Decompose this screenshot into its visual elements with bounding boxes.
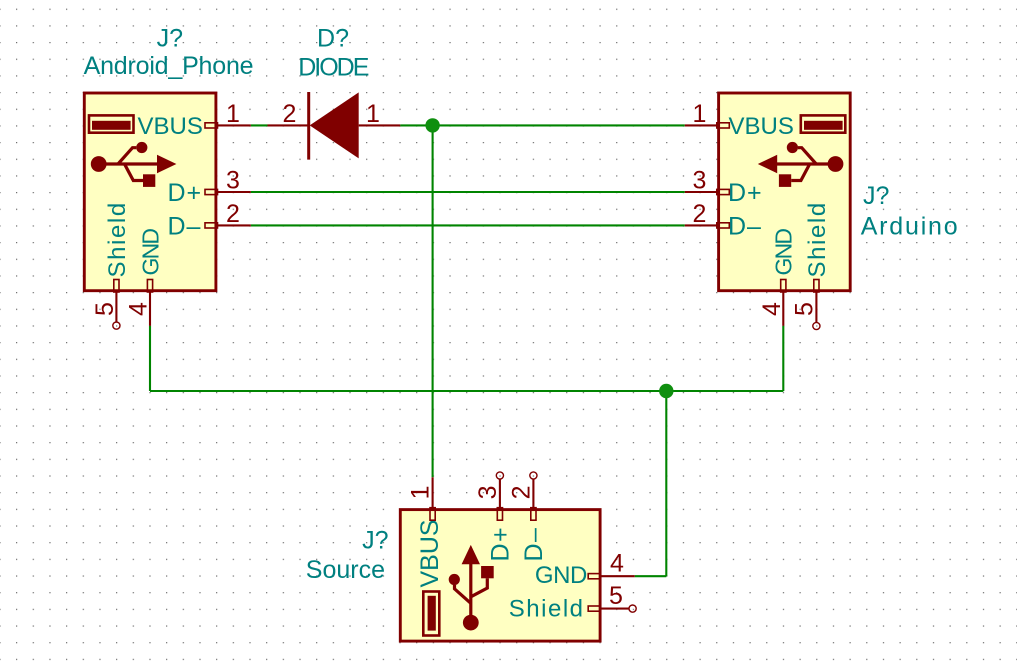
svg-text:4: 4: [758, 302, 786, 316]
wire D+: [251, 191, 685, 193]
connector J3 pin name GND: [535, 562, 587, 589]
wire GND bus horizontal: [150, 390, 783, 392]
svg-text:Shield: Shield: [509, 596, 585, 623]
svg-text:3: 3: [692, 167, 706, 195]
connector J3 pin name Shield: [509, 596, 585, 623]
svg-text:1: 1: [366, 100, 380, 128]
connector J1 plug icon: [89, 115, 134, 132]
svg-text:VBUS: VBUS: [729, 113, 794, 140]
connector J2 pin name D+: [728, 179, 763, 207]
svg-text:D–: D–: [520, 527, 548, 562]
wire D-: [251, 224, 685, 226]
connector J2 reference J?: [863, 182, 889, 210]
svg-text:1: 1: [692, 100, 706, 128]
svg-text:VBUS: VBUS: [416, 519, 444, 587]
connector J2 pin 2 number: [692, 200, 706, 228]
wire VBUS right (diode to connector J2): [400, 124, 685, 126]
connector J1 Android_Phone body: [84, 93, 216, 291]
connector J2 pin name D-: [728, 212, 762, 240]
svg-text:D?: D?: [317, 25, 349, 53]
connector J2 pin 4 number: [758, 302, 786, 316]
connector J2 Arduino body: [719, 93, 851, 291]
connector J3 pin name D+ (vertical): [486, 526, 514, 562]
connector J2 pin 1 number: [692, 100, 706, 128]
svg-text:2: 2: [283, 100, 297, 128]
connector J2 pin name VBUS: [729, 113, 794, 140]
connector J3 USB logo: [449, 545, 494, 631]
svg-text:DIODE: DIODE: [298, 54, 369, 82]
diode D1 pin 1 number: [366, 100, 380, 128]
connector J2 pin 3 number: [692, 167, 706, 195]
connector J1 USB logo: [91, 142, 177, 187]
connector J2 pin 1 VBUS: [685, 123, 730, 128]
svg-text:J?: J?: [157, 25, 183, 53]
connector J1 pin name VBUS: [138, 113, 203, 140]
connector J3 pin 3 number: [474, 485, 502, 499]
connector J1 pin 3 number: [226, 167, 240, 195]
svg-text:4: 4: [610, 550, 624, 578]
connector J2 plug icon: [801, 115, 846, 132]
svg-text:Shield: Shield: [104, 201, 131, 277]
connector J3 pin 2 D-: [530, 472, 537, 520]
svg-text:5: 5: [609, 582, 623, 610]
svg-text:1: 1: [226, 100, 240, 128]
connector J3 pin name VBUS (vertical): [416, 519, 444, 587]
svg-text:2: 2: [507, 485, 535, 499]
connector J2 USB logo: [758, 142, 844, 187]
wire GND junction down: [665, 391, 667, 576]
connector J1 pin name Shield (vertical): [104, 201, 131, 277]
diode D1 cathode bar: [307, 92, 310, 160]
connector J3 pin 1 number: [407, 485, 435, 499]
connector J1 reference J?: [157, 25, 183, 53]
connector J2 pin name Shield (vertical): [804, 201, 831, 277]
svg-text:5: 5: [91, 302, 119, 316]
svg-text:2: 2: [226, 200, 240, 228]
connector J2 pin 5 Shield: [813, 280, 820, 330]
svg-text:Source: Source: [306, 556, 385, 584]
connector J2 value Arduino: [861, 213, 960, 241]
svg-text:D–: D–: [168, 212, 202, 240]
connector J1 pin 1 number: [226, 100, 240, 128]
connector J3 pin name D- (vertical): [520, 527, 548, 562]
connector J3 pin 4 GND: [588, 574, 635, 579]
diode D1 triangle: [310, 92, 359, 158]
svg-text:Arduino: Arduino: [861, 213, 960, 241]
connector J1 pin 2 D-: [205, 223, 251, 228]
svg-text:Shield: Shield: [804, 201, 831, 277]
wire GND left vertical: [149, 326, 151, 391]
connector J3 reference J?: [362, 527, 388, 555]
connector J1 value Android_Phone: [84, 52, 254, 80]
diode D1 pin 2 number: [283, 100, 297, 128]
svg-text:5: 5: [791, 302, 819, 316]
connector J1 pin name D-: [168, 212, 202, 240]
connector J3 pin 5 number: [609, 582, 623, 610]
connector J2 pin 2 D-: [685, 223, 730, 228]
junction node GND: [659, 384, 673, 398]
connector J3 pin 1 VBUS: [430, 477, 435, 520]
connector J2 pin 5 number: [791, 302, 819, 316]
connector J1 pin 4 GND: [147, 280, 152, 326]
svg-text:VBUS: VBUS: [138, 113, 203, 140]
connector J3 Source body: [400, 510, 600, 641]
svg-text:GND: GND: [535, 562, 587, 589]
connector J1 pin 5 Shield: [113, 280, 120, 330]
connector J3 pin 3 D+: [496, 472, 503, 520]
connector J1 pin name D+: [168, 179, 203, 207]
diode D1 pin 2: [268, 124, 309, 126]
svg-text:3: 3: [474, 485, 502, 499]
connector J1 pin 2 number: [226, 200, 240, 228]
connector J2 pin 3 D+: [685, 189, 730, 194]
svg-text:2: 2: [692, 200, 706, 228]
wire GND right vertical: [782, 326, 784, 391]
connector J1 pin 5 number: [91, 302, 119, 316]
connector J1 pin 3 D+: [205, 189, 251, 194]
diode D1 pin 1: [359, 124, 401, 126]
svg-text:GND: GND: [771, 229, 797, 276]
svg-text:D+: D+: [728, 179, 763, 207]
connector J1 pin 4 number: [125, 302, 153, 316]
connector J1 pin 1 VBUS: [205, 123, 251, 128]
svg-text:D–: D–: [728, 212, 762, 240]
wire VBUS left (connector J1 to diode): [251, 124, 268, 126]
connector J3 plug icon: [423, 592, 439, 636]
connector J2 pin 4 GND: [781, 280, 786, 326]
connector J3 pin 4 number: [610, 550, 624, 578]
svg-text:D+: D+: [168, 179, 203, 207]
svg-text:J?: J?: [362, 527, 388, 555]
connector J3 pin 5 Shield: [588, 605, 636, 612]
connector J2 pin name GND (vertical): [771, 229, 797, 276]
connector J1 pin name GND (vertical): [137, 229, 163, 276]
svg-text:GND: GND: [137, 229, 163, 276]
svg-text:D+: D+: [486, 526, 514, 562]
svg-text:3: 3: [226, 167, 240, 195]
connector J3 value Source: [306, 556, 385, 584]
svg-text:Android_Phone: Android_Phone: [84, 52, 254, 80]
connector J3 pin 2 number: [507, 485, 535, 499]
wire VBUS vertical to J3: [432, 125, 434, 477]
junction node VBUS: [425, 118, 439, 132]
wire GND to J3 pin4: [635, 575, 667, 577]
diode D1 reference D?: [317, 25, 349, 53]
svg-text:J?: J?: [863, 182, 889, 210]
diode D1 value DIODE: [298, 54, 369, 82]
svg-text:4: 4: [125, 302, 153, 316]
svg-text:1: 1: [407, 485, 435, 499]
